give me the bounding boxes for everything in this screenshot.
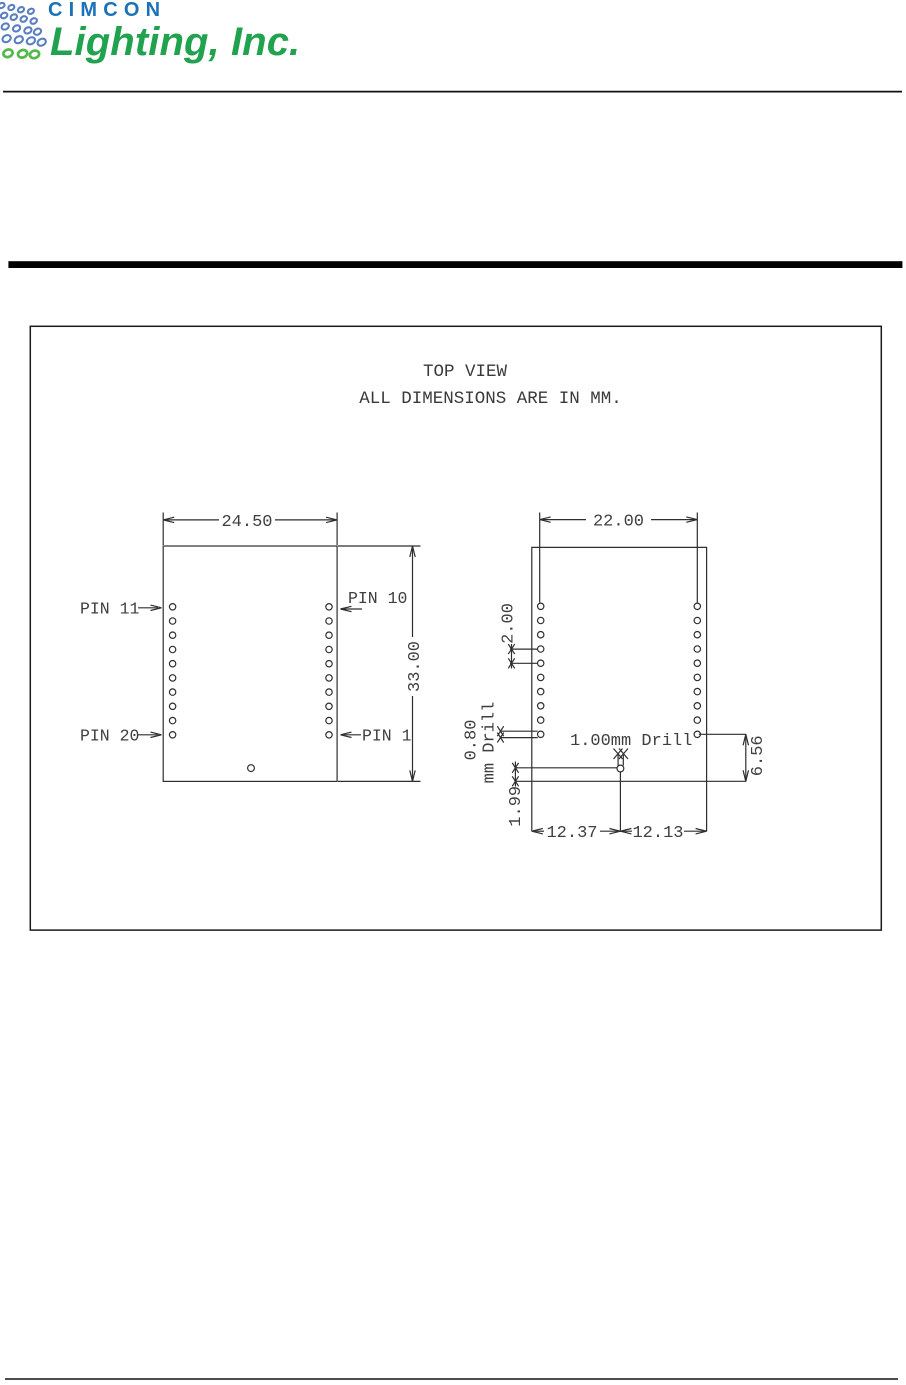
hole 1.00mm (right view) [617, 765, 624, 772]
svg-text:12.37: 12.37 [546, 824, 597, 843]
dim 22.00 line with arrows [540, 519, 586, 521]
dim 2.00 line with outside arrows [511, 644, 513, 669]
dim 2.00 extension lines [510, 648, 538, 650]
svg-text:PIN 10: PIN 10 [348, 589, 407, 608]
dim 6.56 line with arrows [745, 734, 747, 781]
svg-text:TOP VIEW: TOP VIEW [423, 362, 508, 382]
dim 22.00 extension lines [539, 513, 541, 603]
svg-text:PIN 20: PIN 20 [80, 726, 139, 745]
svg-text:mm Drill: mm Drill [481, 702, 500, 784]
line from 1.99 dim to hole [515, 767, 617, 769]
svg-text:PIN 1: PIN 1 [362, 726, 412, 745]
antenna hole (left view) [248, 765, 255, 772]
callout 1.00mm hole width lines with arrows [617, 755, 619, 766]
module outline (left view) [163, 546, 337, 781]
header rule [3, 91, 902, 93]
leader from hole down to dimension line [619, 772, 621, 831]
section divider bar [8, 261, 902, 268]
pin column right (pins 10-1, left view) [326, 604, 332, 738]
module outline (right view) [532, 547, 707, 831]
pin column left (right view) [538, 603, 544, 737]
dim 12.37 / 12.13 baseline [532, 830, 544, 832]
callout 0.80 mm Drill leader lines [501, 730, 538, 732]
logo text Lighting, Inc. [50, 20, 300, 65]
dim 1.99 line with outside arrows [514, 762, 516, 787]
svg-text:2.00: 2.00 [500, 603, 519, 644]
svg-text:12.13: 12.13 [632, 824, 683, 843]
pin column right (right view) [694, 603, 700, 737]
footer rule [5, 1378, 898, 1380]
module bottom edge (right view) [515, 780, 746, 782]
dim 24.50 extension lines [162, 513, 164, 546]
svg-text:33.00: 33.00 [406, 641, 425, 692]
dim 33.00 line with arrows [412, 546, 414, 637]
svg-text:22.00: 22.00 [593, 513, 644, 532]
svg-text:1.99: 1.99 [507, 786, 526, 827]
svg-text:24.50: 24.50 [221, 513, 272, 532]
dim 6.56 extension line [699, 733, 746, 735]
dim 33.00 extension lines [338, 545, 421, 547]
drawing frame [30, 326, 881, 930]
logo text CIMCON [48, 0, 166, 22]
pin column left (pins 11-20, left view) [169, 604, 175, 738]
svg-text:PIN 11: PIN 11 [80, 599, 140, 618]
svg-text:1.00mm Drill: 1.00mm Drill [570, 732, 692, 751]
dim 24.50 line with arrows [163, 519, 219, 521]
svg-text:ALL DIMENSIONS ARE IN MM.: ALL DIMENSIONS ARE IN MM. [359, 389, 622, 409]
logo dot grid [0, 2, 47, 59]
svg-text:6.56: 6.56 [749, 735, 768, 776]
svg-text:0.80: 0.80 [463, 720, 482, 761]
